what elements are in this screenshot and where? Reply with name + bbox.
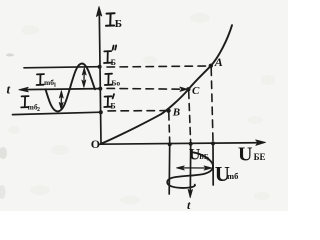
wire: level line I_B' (bottom, solid left part) — [13, 112, 101, 114]
node: point A on curve — [209, 64, 213, 68]
amplitude arrow I_mB2 (trough, double-headed) — [59, 91, 63, 110]
faint paper mottling — [8, 13, 275, 204]
svg-text:Б: Б — [115, 18, 122, 30]
t axis of bottom sine (vertical, arrow down) — [188, 144, 192, 198]
wire: vertical line below A on U axis — [212, 143, 214, 185]
label I_mB2 — [21, 96, 28, 107]
wire: level line I_B'' (top, solid left part) — [24, 67, 100, 68]
node: axis junction I_B'' — [98, 65, 102, 69]
svg-text:U: U — [238, 144, 252, 166]
arrowhead of left t axis — [19, 87, 29, 92]
horizontal axis U_BE — [100, 140, 266, 146]
svg-text:t: t — [7, 82, 11, 97]
left sine wave i_B(t) — [46, 63, 96, 111]
node: point C on curve — [186, 87, 190, 91]
svg-text:Б: Б — [110, 102, 115, 111]
dashed line I_B' to point B — [108, 110, 166, 112]
bottom sine wave u_BE(t) — [167, 152, 213, 188]
vertical axis I_B — [96, 7, 101, 145]
svg-text:Бо: Бо — [111, 79, 120, 88]
dashed vertical from C to U axis — [189, 92, 191, 142]
dashed line I_B'' to point A — [107, 66, 208, 67]
paper background — [0, 0, 288, 211]
label I_B (vertical axis) — [106, 13, 115, 26]
label I_B' (lower tick) — [104, 94, 114, 107]
svg-text:2: 2 — [37, 107, 40, 113]
wire: vertical line below B on U axis — [168, 144, 171, 194]
dashed vertical from A to U axis — [211, 68, 213, 142]
label I_B'' (upper tick) — [104, 45, 116, 63]
amplitude arrow U_mB (horizontal double-headed) — [176, 166, 212, 170]
arrowhead at point C — [180, 87, 188, 91]
wire: t axis of left sine (middle level line) — [22, 89, 100, 90]
svg-text:C: C — [192, 85, 200, 97]
svg-text:0: 0 — [206, 156, 209, 162]
node: point B on curve — [166, 109, 170, 113]
input characteristic curve — [101, 25, 232, 144]
node: axis junction I_B0 — [98, 87, 102, 91]
label I_B0 (middle tick) — [105, 74, 112, 85]
dashed vertical from B to U axis — [168, 113, 171, 142]
svg-text:БЕ: БЕ — [254, 152, 266, 162]
svg-text:Б: Б — [111, 58, 116, 67]
amplitude arrow I_mB1 (peak, double-headed) — [82, 68, 86, 88]
node: axis junction I_B' — [99, 110, 103, 114]
svg-text:O: O — [91, 137, 100, 151]
svg-text:1: 1 — [53, 83, 56, 89]
scan smudge left edge — [0, 147, 7, 159]
svg-text:B: B — [172, 107, 180, 119]
label I_mB1 — [37, 74, 44, 85]
node: U axis junction below C — [189, 142, 193, 146]
svg-text:mб: mб — [227, 171, 238, 181]
svg-text:A: A — [214, 55, 223, 69]
node: U axis junction below A — [211, 141, 215, 145]
node: U axis junction below B — [168, 142, 172, 146]
dashed line I_B0 to point C — [107, 87, 184, 90]
